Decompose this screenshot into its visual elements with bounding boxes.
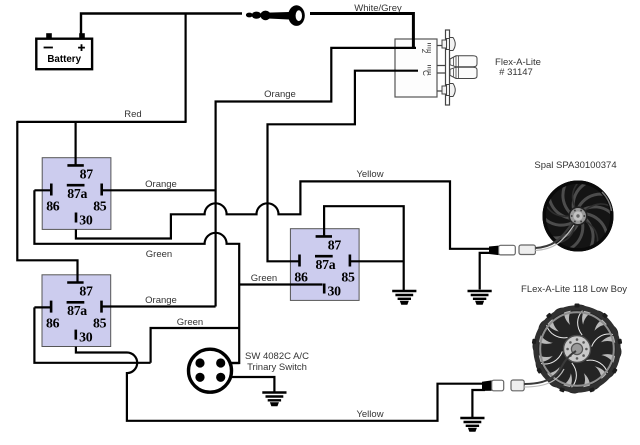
wire: fan F1 ground <box>480 253 492 290</box>
ignition key <box>246 5 305 26</box>
relay R1 body <box>42 158 111 230</box>
wire: red drop to relay R1 87 <box>74 122 76 165</box>
wire: orange stub relay R2 85 <box>101 305 216 307</box>
wire: relay R2 30 to bottom yellow to fan F2, hop over green <box>76 347 485 421</box>
battery B1 <box>36 33 92 69</box>
svg-text:87a: 87a <box>67 186 87 201</box>
controller U1 body <box>395 39 437 97</box>
wire: yellow from relay R1 30 to fan F1 with hops <box>76 181 492 248</box>
controller U1 details <box>420 30 541 105</box>
svg-text:86: 86 <box>46 316 60 331</box>
svg-text:87: 87 <box>328 238 342 253</box>
svg-text:SW 4082C A/C: SW 4082C A/C <box>245 351 309 362</box>
wire: red drop to relay R2 87 <box>17 121 77 283</box>
svg-text:Green: Green <box>177 317 203 328</box>
wire: fan F2 ground <box>472 390 485 417</box>
wire: red horizontal <box>17 121 186 123</box>
svg-text:Battery: Battery <box>47 54 81 65</box>
svg-text:87: 87 <box>79 284 93 299</box>
ground G1 (relay R3) <box>392 291 416 304</box>
trinary switch SW1 <box>189 349 310 392</box>
wire: red branch down from battery feed <box>185 14 187 122</box>
wire: controller terminal C to relay R3 86 <box>268 71 419 262</box>
fan F2 Flex-A-Lite low boy <box>529 301 625 397</box>
svg-text:Spal SPA30100374: Spal SPA30100374 <box>534 160 616 171</box>
svg-text:Trinary Switch: Trinary Switch <box>247 362 307 373</box>
wire: green branch into relay R3 30 <box>239 283 322 285</box>
svg-text:87: 87 <box>80 167 94 182</box>
svg-text:# 31147: # 31147 <box>499 67 533 78</box>
wire: green from relay R2 86 <box>34 307 239 362</box>
relay R3 body <box>290 229 359 301</box>
svg-text:86: 86 <box>46 199 60 214</box>
wire: relay R3 87 top to ground <box>324 206 404 290</box>
wire: relay R3 85 stub to ground drop <box>350 260 404 262</box>
svg-text:Orange: Orange <box>145 179 177 190</box>
wire: green net relay R1 86 to relay R3 30 and trinary <box>34 190 239 363</box>
svg-text:85: 85 <box>93 316 107 331</box>
fan F1 Spal <box>537 175 618 256</box>
svg-text:30: 30 <box>79 330 93 345</box>
svg-text:87a: 87a <box>316 257 336 272</box>
svg-text:Yellow: Yellow <box>356 409 383 420</box>
relay R3 pins <box>294 236 355 298</box>
fan F1 connector <box>489 222 574 255</box>
svg-text:85: 85 <box>341 270 355 285</box>
svg-text:87a: 87a <box>67 303 87 318</box>
wire: trinary switch top-right pin to green net <box>222 362 239 364</box>
svg-text:30: 30 <box>327 284 341 299</box>
relay R2 body <box>42 275 111 347</box>
wire: orange stub relay R1 85 <box>102 189 216 191</box>
relay R2 pins <box>46 283 107 345</box>
bottom bolt <box>442 84 455 97</box>
ground G4 (fan F2) <box>460 418 484 431</box>
relay R1 pins <box>46 165 107 227</box>
wire: battery positive to key <box>81 14 242 34</box>
wire: trinary switch bottom-right pin to ground <box>222 377 274 392</box>
wire: orange from controller terminal 2 <box>216 48 416 307</box>
svg-text:30: 30 <box>79 213 93 228</box>
svg-text:FLex-A-Lite 118 Low Boy: FLex-A-Lite 118 Low Boy <box>521 284 627 295</box>
svg-text:Orange: Orange <box>264 89 296 100</box>
ground G3 (trinary) <box>262 393 286 406</box>
svg-text:C: C <box>421 70 430 76</box>
svg-text:Green: Green <box>251 273 277 284</box>
svg-text:85: 85 <box>93 199 107 214</box>
svg-text:86: 86 <box>294 270 308 285</box>
svg-text:Orange: Orange <box>145 295 177 306</box>
wire: white/grey from key to controller terminal 2 <box>310 14 413 48</box>
svg-text:Green: Green <box>146 249 172 260</box>
top bolt <box>442 38 455 51</box>
svg-text:White/Grey: White/Grey <box>354 3 402 14</box>
middle connector plugs <box>450 56 477 79</box>
svg-text:2: 2 <box>420 49 429 54</box>
ground G2 (fan F1) <box>468 291 492 304</box>
fan F2 connector <box>482 351 576 391</box>
svg-text:Yellow: Yellow <box>356 169 383 180</box>
svg-text:Red: Red <box>124 109 141 120</box>
